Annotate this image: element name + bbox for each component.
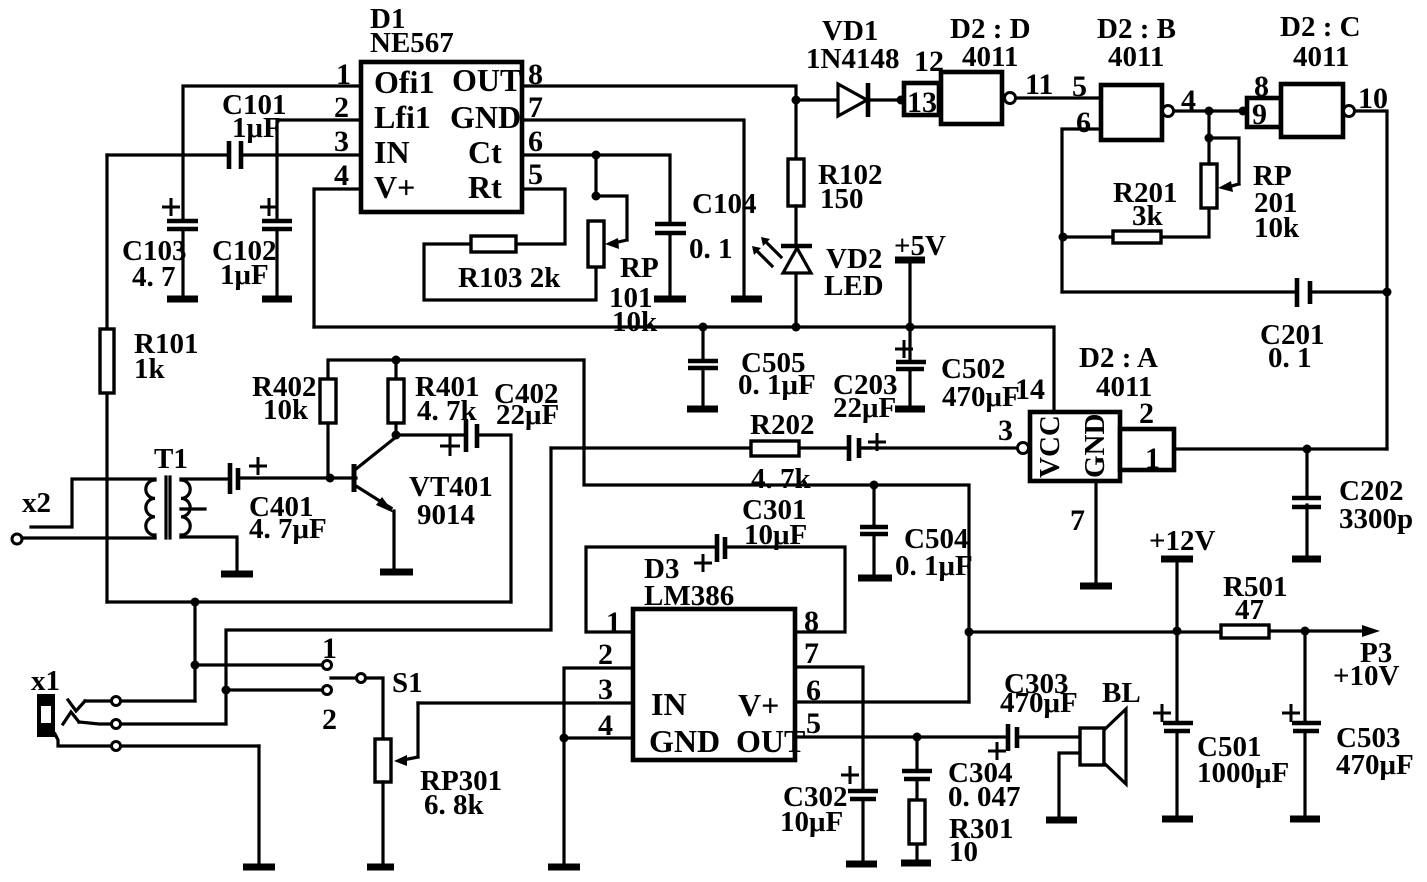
svg-text:3300p: 3300p: [1339, 503, 1413, 535]
svg-text:3: 3: [998, 414, 1013, 447]
svg-text:V+: V+: [374, 169, 415, 205]
svg-text:D2 : C: D2 : C: [1280, 11, 1361, 43]
svg-text:NE567: NE567: [370, 27, 454, 59]
svg-text:4: 4: [1181, 84, 1196, 117]
svg-text:6: 6: [528, 125, 543, 158]
svg-text:12: 12: [914, 45, 944, 78]
svg-text:+5V: +5V: [894, 230, 946, 262]
svg-text:14: 14: [1015, 373, 1045, 406]
svg-text:8: 8: [804, 605, 819, 638]
svg-text:1: 1: [322, 632, 337, 665]
svg-text:4011: 4011: [1108, 41, 1164, 73]
svg-text:9014: 9014: [417, 499, 475, 531]
svg-text:2: 2: [322, 703, 337, 736]
svg-text:3k: 3k: [1132, 200, 1164, 232]
svg-text:6: 6: [1076, 106, 1091, 139]
svg-text:22μF: 22μF: [833, 392, 896, 424]
svg-text:11: 11: [1025, 68, 1053, 101]
svg-text:T1: T1: [154, 443, 188, 475]
svg-text:0. 1μF: 0. 1μF: [895, 550, 973, 582]
svg-text:1: 1: [606, 606, 621, 639]
svg-text:9: 9: [1252, 98, 1267, 131]
svg-text:4011: 4011: [962, 41, 1018, 73]
svg-text:10k: 10k: [263, 394, 309, 426]
svg-text:0. 1: 0. 1: [1268, 342, 1312, 374]
svg-text:5: 5: [1072, 70, 1087, 103]
svg-text:4. 7k: 4. 7k: [751, 463, 812, 495]
svg-text:10k: 10k: [1254, 212, 1300, 244]
svg-text:0. 1: 0. 1: [689, 233, 733, 265]
svg-text:Rt: Rt: [468, 169, 502, 205]
svg-text:0. 1μF: 0. 1μF: [738, 369, 816, 401]
svg-text:x1: x1: [31, 665, 60, 697]
svg-text:LED: LED: [824, 270, 884, 302]
svg-text:7: 7: [528, 91, 543, 124]
svg-text:2: 2: [334, 91, 349, 124]
svg-text:1μF: 1μF: [232, 112, 281, 144]
svg-text:470μF: 470μF: [1000, 687, 1078, 719]
svg-text:LM386: LM386: [644, 580, 734, 612]
svg-text:S1: S1: [392, 667, 423, 699]
svg-text:4: 4: [334, 159, 349, 192]
svg-text:R202: R202: [750, 409, 814, 441]
svg-text:1μF: 1μF: [220, 259, 269, 291]
svg-text:22μF: 22μF: [496, 399, 559, 431]
svg-text:6: 6: [806, 674, 821, 707]
svg-text:150: 150: [820, 183, 864, 215]
svg-text:6. 8k: 6. 8k: [424, 789, 485, 821]
svg-text:10μF: 10μF: [780, 806, 843, 838]
svg-text:10: 10: [949, 836, 978, 868]
svg-text:5: 5: [528, 158, 543, 191]
svg-text:8: 8: [528, 58, 543, 91]
svg-text:C104: C104: [692, 188, 756, 220]
svg-text:GND: GND: [1079, 414, 1111, 478]
svg-text:4011: 4011: [1293, 41, 1349, 73]
svg-text:4: 4: [598, 709, 613, 742]
svg-text:3: 3: [334, 125, 349, 158]
svg-text:47: 47: [1235, 594, 1264, 626]
svg-text:x2: x2: [22, 487, 51, 519]
svg-text:2: 2: [1139, 397, 1154, 430]
svg-text:V+: V+: [738, 687, 779, 723]
svg-text:Lfi1: Lfi1: [374, 99, 431, 135]
svg-text:OUT: OUT: [452, 62, 521, 98]
svg-text:1N4148: 1N4148: [806, 43, 899, 75]
svg-text:470μF: 470μF: [1336, 749, 1414, 781]
svg-text:7: 7: [804, 637, 819, 670]
svg-text:+12V: +12V: [1149, 525, 1216, 557]
svg-text:IN: IN: [374, 134, 410, 170]
svg-text:4. 7: 4. 7: [132, 261, 176, 293]
svg-text:3: 3: [598, 673, 613, 706]
svg-text:IN: IN: [651, 686, 687, 722]
svg-text:1k: 1k: [134, 353, 166, 385]
svg-text:13: 13: [907, 86, 937, 119]
svg-text:GND: GND: [450, 99, 521, 135]
svg-text:10k: 10k: [612, 306, 658, 338]
svg-text:OUT: OUT: [736, 723, 805, 759]
svg-text:4. 7k: 4. 7k: [417, 395, 478, 427]
svg-text:1: 1: [1145, 442, 1160, 475]
svg-text:VCC: VCC: [1034, 415, 1066, 478]
svg-text:10: 10: [1358, 82, 1388, 115]
svg-text:D2 : A: D2 : A: [1079, 342, 1158, 374]
svg-text:Ofi1: Ofi1: [374, 64, 434, 100]
svg-text:7: 7: [1070, 504, 1085, 537]
svg-text:470μF: 470μF: [942, 381, 1020, 413]
svg-text:0. 047: 0. 047: [948, 781, 1021, 813]
svg-text:Ct: Ct: [468, 134, 502, 170]
svg-text:BL: BL: [1102, 677, 1141, 709]
svg-text:1000μF: 1000μF: [1197, 757, 1289, 789]
svg-text:10μF: 10μF: [744, 519, 807, 551]
svg-text:5: 5: [806, 707, 821, 740]
svg-text:4. 7μF: 4. 7μF: [249, 513, 327, 545]
svg-text:GND: GND: [649, 723, 720, 759]
svg-text:+10V: +10V: [1333, 660, 1400, 692]
svg-text:RP: RP: [620, 252, 659, 284]
svg-text:1: 1: [336, 58, 351, 91]
svg-text:R103 2k: R103 2k: [458, 262, 561, 294]
svg-text:2: 2: [598, 638, 613, 671]
